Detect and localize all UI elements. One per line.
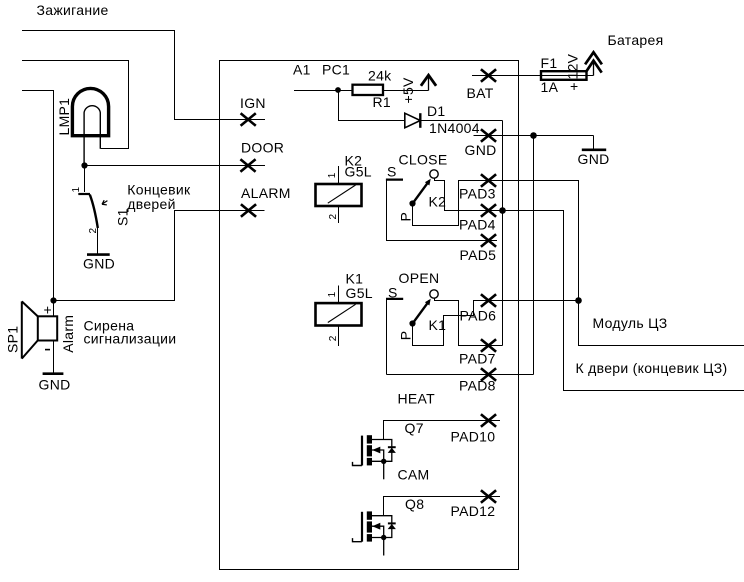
svg-text:OPEN: OPEN xyxy=(399,270,440,286)
svg-text:К двери (концевик ЦЗ): К двери (концевик ЦЗ) xyxy=(576,360,728,376)
svg-text:Модуль ЦЗ: Модуль ЦЗ xyxy=(593,315,668,331)
svg-text:1: 1 xyxy=(71,187,82,193)
svg-text:P: P xyxy=(397,331,413,341)
svg-text:2: 2 xyxy=(328,214,339,220)
svg-text:CLOSE: CLOSE xyxy=(399,151,448,167)
svg-text:GND: GND xyxy=(465,142,497,158)
svg-text:Зажигание: Зажигание xyxy=(37,2,109,18)
svg-text:+5V: +5V xyxy=(400,77,416,104)
svg-text:PAD10: PAD10 xyxy=(451,429,496,445)
svg-text:Q8: Q8 xyxy=(405,496,424,512)
svg-text:24k: 24k xyxy=(368,67,392,83)
svg-text:1: 1 xyxy=(327,172,338,178)
svg-text:G5L: G5L xyxy=(346,285,373,301)
svg-text:S: S xyxy=(387,164,397,180)
svg-text:12V: 12V xyxy=(565,53,581,79)
svg-text:PAD12: PAD12 xyxy=(451,503,496,519)
svg-text:Alarm: Alarm xyxy=(60,315,76,353)
svg-text:HEAT: HEAT xyxy=(398,390,436,406)
svg-text:SP1: SP1 xyxy=(5,326,21,353)
svg-text:LMP1: LMP1 xyxy=(56,98,72,136)
svg-text:PAD3: PAD3 xyxy=(459,185,496,201)
svg-text:дверей: дверей xyxy=(127,196,175,212)
svg-text:2: 2 xyxy=(88,228,99,234)
svg-text:G5L: G5L xyxy=(345,164,372,180)
svg-text:K2: K2 xyxy=(429,194,447,210)
svg-text:PC1: PC1 xyxy=(322,61,350,77)
svg-text:2: 2 xyxy=(328,335,339,341)
svg-text:1: 1 xyxy=(327,291,338,297)
svg-text:GND: GND xyxy=(578,151,610,167)
svg-text:PAD5: PAD5 xyxy=(460,247,497,263)
svg-text:BAT: BAT xyxy=(467,85,494,101)
svg-text:PAD7: PAD7 xyxy=(459,350,496,366)
svg-text:ALARM: ALARM xyxy=(241,185,291,201)
svg-text:R1: R1 xyxy=(373,94,392,110)
svg-text:PAD8: PAD8 xyxy=(459,377,496,393)
svg-text:PAD4: PAD4 xyxy=(459,217,496,233)
svg-text:PAD6: PAD6 xyxy=(460,307,497,323)
svg-text:A1: A1 xyxy=(293,61,311,77)
svg-text:Батарея: Батарея xyxy=(608,32,664,48)
svg-text:IGN: IGN xyxy=(240,95,266,111)
svg-text:Q7: Q7 xyxy=(405,420,424,436)
svg-text:D1: D1 xyxy=(427,103,446,119)
svg-text:CAM: CAM xyxy=(398,466,430,482)
svg-text:сигнализации: сигнализации xyxy=(84,331,177,347)
svg-text:GND: GND xyxy=(83,256,115,272)
svg-text:K1: K1 xyxy=(346,271,364,287)
svg-text:1A: 1A xyxy=(541,79,559,95)
svg-text:DOOR: DOOR xyxy=(241,140,284,156)
svg-text:1N4004: 1N4004 xyxy=(429,120,480,136)
svg-text:F1: F1 xyxy=(541,55,558,71)
svg-text:+: + xyxy=(44,302,52,318)
svg-text:GND: GND xyxy=(39,377,71,393)
svg-text:P: P xyxy=(397,212,413,222)
